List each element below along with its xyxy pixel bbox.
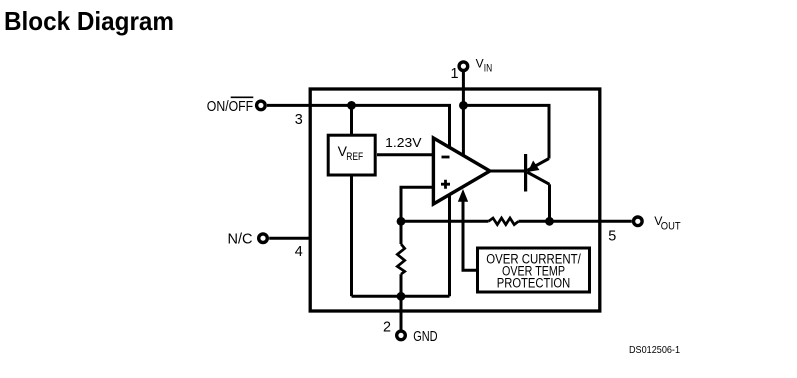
transistor Q1 (PNP) bbox=[526, 154, 550, 192]
wire VREF bottom to ground rail bbox=[350, 177, 353, 297]
wire VREF out to amp minus input bbox=[377, 153, 434, 156]
wire N/C pin stub bbox=[269, 237, 311, 240]
svg-text:DS012506-1: DS012506-1 bbox=[629, 345, 680, 356]
wire transistor collector to VOUT rail bbox=[548, 184, 551, 221]
protection box bbox=[478, 248, 590, 292]
svg-text:OUT: OUT bbox=[661, 221, 681, 233]
wire VIN pin down to amp supply bbox=[462, 72, 465, 156]
junction node ground bbox=[397, 292, 406, 301]
pin 2 terminal GND bbox=[397, 331, 406, 340]
pin 5 terminal VOUT bbox=[634, 217, 643, 226]
op-amp U1 bbox=[433, 138, 490, 204]
resistor R2 (vertical) bbox=[397, 244, 404, 274]
wire node B to resistor R2 bbox=[400, 221, 403, 244]
wire feedback node to resistor R1 bbox=[401, 220, 489, 223]
svg-text:GND: GND bbox=[413, 329, 437, 345]
protection arrow into op-amp bbox=[459, 190, 468, 201]
wire amp output to transistor base bbox=[490, 170, 527, 173]
overline over OFF bbox=[231, 96, 254, 98]
wire protection box to amp arrow bbox=[463, 198, 477, 271]
IC outline box bbox=[310, 89, 600, 311]
wire ground node to GND pin bbox=[400, 296, 403, 330]
svg-text:2: 2 bbox=[383, 319, 391, 335]
op-amp minus label bbox=[442, 156, 450, 159]
svg-text:IN: IN bbox=[484, 62, 492, 74]
junction node feedback bbox=[397, 217, 406, 226]
svg-text:REF: REF bbox=[346, 151, 363, 163]
svg-text:V: V bbox=[476, 57, 484, 71]
junction node VIN bbox=[459, 101, 468, 110]
svg-text:Block Diagram: Block Diagram bbox=[4, 6, 174, 36]
VREF box bbox=[328, 135, 375, 175]
transistor Q1 emitter arrow bbox=[529, 162, 539, 172]
junction node collector/VOUT bbox=[545, 217, 554, 226]
wire VIN node to transistor emitter bbox=[463, 105, 549, 158]
resistor R1 (horizontal) bbox=[489, 218, 519, 225]
svg-text:1: 1 bbox=[451, 66, 459, 82]
op-amp plus label bbox=[441, 180, 450, 189]
pin 3 terminal ON/OFF bbox=[257, 101, 266, 110]
wire node A to VREF top bbox=[350, 105, 353, 134]
svg-text:3: 3 bbox=[295, 112, 303, 128]
svg-text:N/C: N/C bbox=[228, 232, 253, 248]
svg-text:ON/OFF: ON/OFF bbox=[207, 99, 254, 115]
wire R1 to VOUT pin bbox=[519, 220, 632, 223]
svg-text:PROTECTION: PROTECTION bbox=[497, 276, 571, 292]
svg-text:4: 4 bbox=[295, 244, 303, 260]
wire ground rail bbox=[352, 295, 450, 298]
svg-text:5: 5 bbox=[608, 229, 616, 245]
pin 4 terminal N/C bbox=[259, 234, 268, 243]
wire amp ground bbox=[448, 195, 451, 297]
pin 1 terminal VIN bbox=[459, 62, 468, 71]
svg-text:1.23V: 1.23V bbox=[385, 135, 422, 150]
wire ON/OFF to amp enable bbox=[267, 105, 450, 147]
wire amp plus input from feedback node bbox=[401, 187, 434, 221]
wire R2 to ground node bbox=[400, 274, 403, 296]
junction node A (ON/OFF & VREF) bbox=[347, 101, 356, 110]
